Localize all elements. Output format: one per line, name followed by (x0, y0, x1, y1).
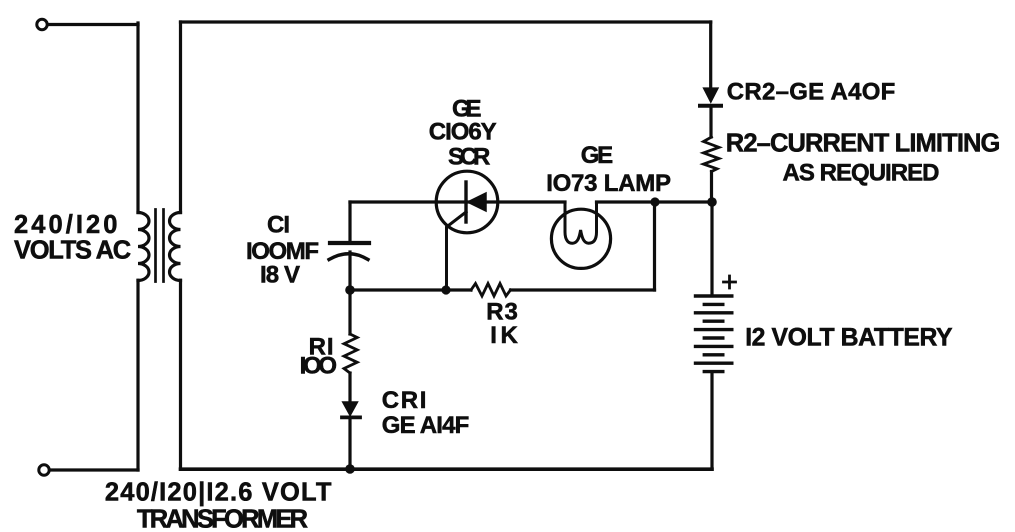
svg-text:TRANSFORMER: TRANSFORMER (137, 505, 308, 532)
svg-text:IO73 LAMP: IO73 LAMP (546, 170, 671, 197)
capacitor C1 curved plate (329, 254, 368, 260)
junction: lamp/R3 node (650, 197, 659, 206)
battery BT1 12V (696, 202, 736, 469)
SCR Q1 GE C106Y (436, 171, 498, 290)
wire: CR2 cathode to R2 (709, 107, 712, 137)
wire: R3 to vertical riser (511, 288, 655, 291)
SCR Q1 envelope circle (436, 171, 498, 233)
svg-text:IOO: IOO (300, 353, 337, 380)
junction: SCR gate node (441, 285, 450, 294)
wire: C1 top lead (348, 202, 351, 242)
svg-text:GE: GE (581, 142, 613, 169)
terminal: AC input bottom (39, 465, 49, 475)
junction: battery positive node (707, 197, 717, 207)
SCR Q1 anode arrow (468, 193, 487, 211)
resistor R3 (471, 284, 511, 297)
diode CR1 cathode bar (342, 415, 360, 419)
wire: C1 node to R3 (350, 288, 471, 291)
lamp DS1 bulb circle (551, 209, 610, 268)
svg-text:CRI: CRI (382, 387, 427, 414)
wire: primary bottom vertical (136, 280, 139, 470)
transformer secondary winding (170, 213, 181, 281)
wire: node to R3 vertical (653, 202, 656, 290)
wire: C1 bottom lead (348, 252, 351, 290)
wire: secondary top vertical (179, 22, 182, 213)
battery BT1 plus polarity mark (724, 276, 736, 288)
junction: C1 bottom node (345, 285, 355, 295)
svg-text:VOLTS AC: VOLTS AC (14, 237, 131, 265)
wire: top rail (181, 20, 711, 23)
resistor R1 (344, 334, 357, 373)
wire: primary top vertical (136, 23, 139, 213)
svg-text:240/I20: 240/I20 (14, 211, 117, 239)
battery BT1 short plates (704, 304, 723, 371)
svg-text:CR2–GE A4OF: CR2–GE A4OF (727, 78, 896, 105)
wire: R1 to CR1 (348, 373, 351, 402)
svg-text:CIO6Y: CIO6Y (429, 119, 497, 146)
wire: main horizontal rail left part (350, 200, 565, 203)
svg-text:I8 V: I8 V (260, 261, 300, 288)
capacitor C1 top plate (330, 241, 369, 245)
wire: CR1 cathode to bottom rail (348, 419, 351, 469)
wire: right rail top (CR2 anode lead) (709, 22, 712, 89)
diode CR1 (342, 402, 360, 469)
svg-text:R2–CURRENT LIMITING: R2–CURRENT LIMITING (726, 130, 1001, 158)
svg-text:IK: IK (490, 322, 518, 349)
lamp DS1 filament and leads (565, 202, 597, 243)
resistor R2 (704, 137, 720, 172)
svg-text:GE AI4F: GE AI4F (382, 412, 470, 439)
svg-text:I2 VOLT BATTERY: I2 VOLT BATTERY (745, 324, 953, 351)
diode CR2 anode triangle (704, 89, 717, 102)
wire: secondary bottom vertical (179, 280, 182, 469)
wire: bottom AC lead (50, 468, 138, 471)
diode CR2 (700, 89, 721, 138)
transformer primary winding (138, 213, 149, 281)
SCR Q1 cathode bar (464, 182, 467, 222)
diode CR2 cathode bar (700, 104, 721, 108)
svg-text:CI: CI (267, 211, 290, 238)
wire: main horizontal rail right part (597, 200, 713, 203)
wire: R2 to node (710, 172, 713, 203)
wire: battery negative lead (710, 372, 713, 469)
junction: CR1 to bottom rail (345, 464, 355, 474)
transformer core (156, 210, 164, 282)
diode CR1 anode triangle (343, 402, 357, 414)
capacitor C1 (329, 202, 369, 290)
svg-text:AS REQUIRED: AS REQUIRED (783, 160, 940, 187)
wire: battery positive lead (710, 202, 713, 295)
lamp DS1 GE 1073 (551, 202, 610, 268)
svg-text:240/I20|I2.6 VOLT: 240/I20|I2.6 VOLT (105, 479, 332, 507)
wire: bottom rail (181, 467, 713, 471)
svg-text:SCR: SCR (448, 143, 490, 170)
wire: top AC lead (48, 23, 138, 26)
wire: C1 node down to R1 (348, 290, 351, 334)
SCR Q1 gate lead (447, 212, 467, 290)
battery BT1 long plates (696, 296, 732, 363)
terminal: AC input top (37, 19, 47, 29)
